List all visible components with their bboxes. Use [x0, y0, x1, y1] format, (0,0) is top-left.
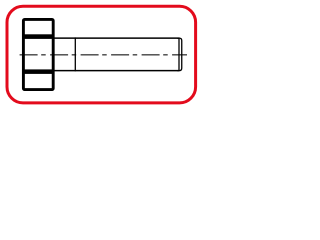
shaft bottom line [55, 70, 180, 72]
shaft top line [55, 37, 180, 39]
chamfer line at tip [178, 38, 180, 72]
rounded tip outline [177, 38, 182, 71]
hex facet line upper [22, 34, 54, 39]
red highlight border [7, 6, 196, 103]
bolt head outline [23, 19, 53, 89]
thread boundary line [74, 37, 76, 71]
hex facet line lower [22, 69, 54, 74]
centerline [20, 54, 187, 56]
